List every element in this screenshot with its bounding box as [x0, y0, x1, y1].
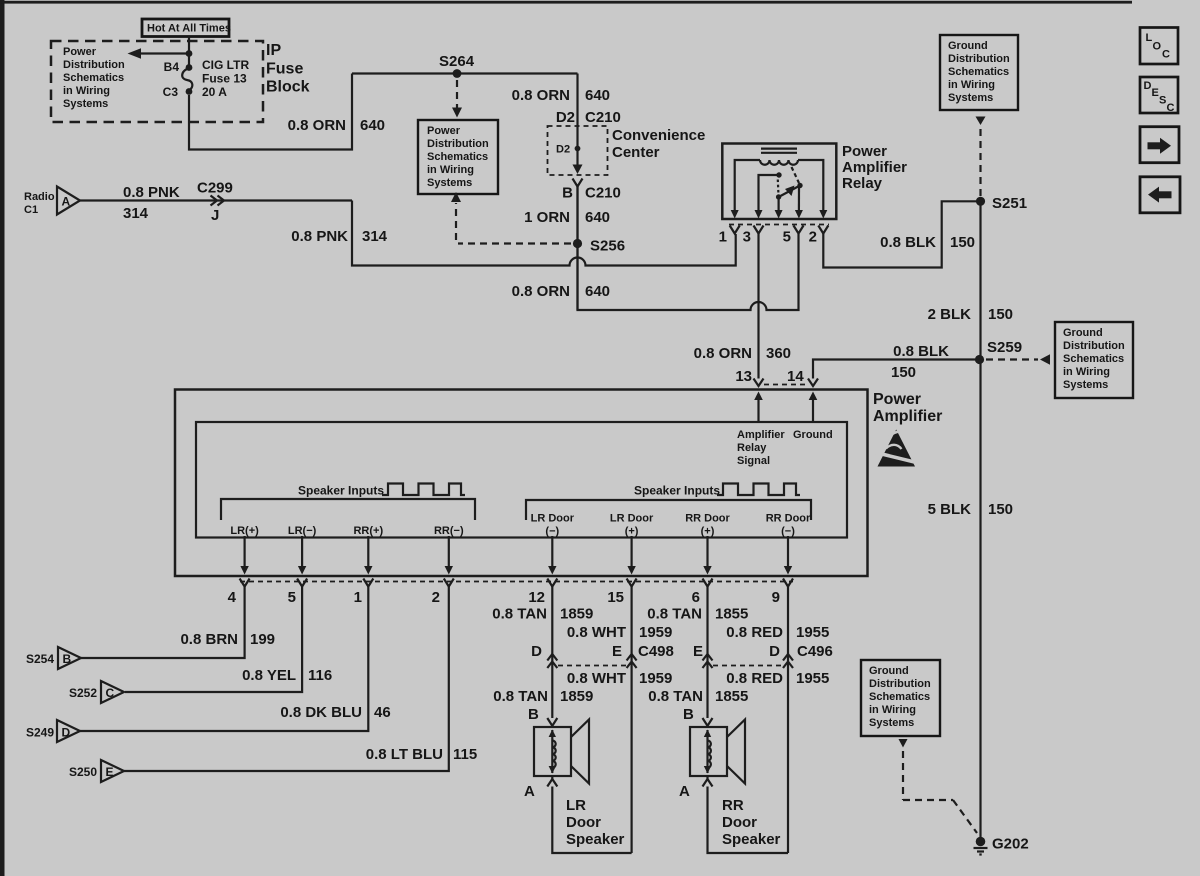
amplifier pin numbers 13 14: [735, 368, 804, 385]
svg-text:640: 640: [360, 117, 385, 134]
speaker input pin labels LR RR: [230, 525, 464, 537]
convenience center dashed box: [548, 126, 608, 175]
svg-text:G202: G202: [992, 836, 1029, 853]
labels 0.8 WHT 1959 (pin 15 upper): [567, 624, 673, 641]
svg-text:0.8 TAN: 0.8 TAN: [648, 688, 703, 705]
relay fixed contact pin3: [759, 172, 782, 211]
svg-text:J: J: [211, 207, 219, 224]
wire fuse output down and over to 0.8 ORN riser: [189, 74, 352, 150]
svg-text:115: 115: [453, 746, 477, 763]
button next (right arrow): [1140, 127, 1179, 163]
svg-text:1855: 1855: [715, 688, 748, 705]
svg-text:0.8 RED: 0.8 RED: [726, 670, 783, 687]
splice S251: [976, 195, 1027, 212]
svg-text:Relay: Relay: [842, 175, 883, 192]
svg-text:150: 150: [988, 306, 1013, 323]
label 0.8 ORN 640 below S256: [512, 283, 610, 300]
labels 0.8 RED 1955 (lower): [726, 670, 829, 687]
svg-text:LR(+): LR(+): [230, 525, 259, 537]
svg-text:0.8 TAN: 0.8 TAN: [493, 688, 548, 705]
svg-text:RR Door: RR Door: [685, 513, 730, 525]
svg-text:LR Door: LR Door: [610, 513, 654, 525]
svg-text:640: 640: [585, 87, 610, 104]
label 0.8 ORN 640: [512, 87, 610, 104]
svg-text:Ground: Ground: [948, 40, 988, 52]
svg-text:Speaker: Speaker: [722, 831, 781, 848]
splice S256: [573, 238, 625, 255]
svg-text:0.8 WHT: 0.8 WHT: [567, 670, 626, 687]
connector B C210 (female Y): [562, 179, 621, 202]
wire LR speaker A loop to wire 15: [552, 787, 631, 854]
svg-text:20 A: 20 A: [202, 85, 227, 99]
label 2 BLK 150: [928, 306, 1013, 323]
svg-text:S251: S251: [992, 195, 1027, 212]
inline connector C299 terminal J (chevrons): [197, 180, 233, 225]
svg-text:5 BLK: 5 BLK: [928, 501, 972, 518]
svg-text:A: A: [679, 783, 690, 800]
svg-text:Systems: Systems: [948, 92, 993, 104]
label 0.8 ORN 640: [288, 117, 385, 134]
svg-text:12: 12: [528, 589, 545, 606]
svg-text:0.8 LT BLU: 0.8 LT BLU: [366, 746, 443, 763]
LR door speaker: [534, 720, 589, 784]
scan page border top: [0, 1, 1132, 4]
fuse value label: [202, 58, 249, 99]
svg-text:Distribution: Distribution: [948, 53, 1010, 65]
input group bracket (right): [526, 500, 811, 520]
wire 0.8 BLK 150 relay pin2 to S251: [823, 201, 976, 267]
svg-text:1955: 1955: [796, 624, 829, 641]
svg-text:1855: 1855: [715, 606, 748, 623]
svg-text:D: D: [62, 726, 71, 740]
svg-text:RR(+): RR(+): [353, 525, 383, 537]
svg-text:0.8 BRN: 0.8 BRN: [180, 631, 238, 648]
svg-text:D2: D2: [556, 144, 570, 156]
svg-text:1959: 1959: [639, 670, 672, 687]
svg-text:0.8 TAN: 0.8 TAN: [647, 606, 702, 623]
svg-text:9: 9: [772, 589, 780, 606]
wire 12 down to LR speaker B: [551, 587, 553, 719]
relay pin terminals (female Y): [730, 226, 829, 234]
svg-text:46: 46: [374, 704, 391, 721]
svg-text:D: D: [1144, 80, 1152, 92]
svg-text:Distribution: Distribution: [63, 59, 125, 71]
relay coil core lines: [761, 149, 797, 153]
svg-text:0.8 ORN: 0.8 ORN: [512, 283, 570, 300]
svg-text:360: 360: [766, 345, 791, 362]
relay connector dashed line: [729, 224, 829, 226]
wire 1 ORN 640 to S256: [576, 187, 578, 311]
svg-text:2: 2: [809, 229, 817, 246]
svg-text:1955: 1955: [796, 670, 829, 687]
svg-text:199: 199: [250, 631, 275, 648]
power amplifier label: [873, 391, 942, 425]
svg-text:E: E: [1152, 87, 1159, 99]
labels 0.8 TAN 1855 (lower): [648, 688, 748, 705]
svg-text:Speaker Inputs: Speaker Inputs: [298, 484, 384, 498]
RR door speaker: [690, 720, 745, 784]
svg-text:Distribution: Distribution: [427, 138, 489, 150]
svg-text:150: 150: [988, 501, 1013, 518]
svg-text:B: B: [683, 706, 694, 723]
amplifier internal arrows for pins 13/14: [754, 392, 817, 423]
labels 0.8 TAN 1859 (pin 12 upper): [492, 606, 593, 623]
wire 0.8 BRN 199 pin4 to S254: [81, 587, 245, 659]
svg-text:A: A: [524, 783, 535, 800]
splice S259: [975, 339, 1022, 364]
wire 0.8 YEL 116 pin5 to S252: [125, 587, 302, 693]
svg-text:Ground: Ground: [1063, 327, 1103, 339]
svg-text:C: C: [1167, 102, 1175, 114]
svg-text:640: 640: [585, 283, 610, 300]
dashed reference arrow from ground box down to S251: [976, 117, 986, 197]
IP Fuse Block label: [266, 42, 310, 96]
amplifier bottom connector dashed line: [240, 581, 793, 583]
svg-text:(−): (−): [545, 526, 559, 538]
svg-text:Fuse: Fuse: [266, 61, 303, 78]
svg-text:Speaker: Speaker: [566, 831, 625, 848]
svg-text:RR(−): RR(−): [434, 525, 464, 537]
splice S264: [439, 53, 475, 78]
svg-text:Door: Door: [566, 814, 601, 831]
svg-text:15: 15: [607, 589, 624, 606]
svg-text:C3: C3: [163, 85, 179, 99]
svg-text:in Wiring: in Wiring: [869, 704, 916, 716]
svg-text:13: 13: [735, 368, 752, 385]
svg-text:S252: S252: [69, 686, 97, 700]
connector C498 terminals D and E: [531, 643, 674, 668]
relay box: Power Amplifier Relay: [722, 144, 836, 220]
svg-text:B: B: [528, 706, 539, 723]
svg-text:C1: C1: [24, 204, 38, 216]
svg-text:in Wiring: in Wiring: [427, 164, 474, 176]
svg-text:Power: Power: [842, 143, 887, 160]
relay pin numbers 1 3 5 2: [719, 229, 817, 246]
svg-text:640: 640: [585, 209, 610, 226]
dashed reference S259 to ground box (right): [986, 354, 1050, 364]
wire 0.8 ORN drop from S264 run to convenience center: [576, 74, 578, 171]
svg-text:CIG LTR: CIG LTR: [202, 58, 249, 72]
relay coil: [760, 160, 798, 165]
svg-text:B: B: [63, 652, 72, 666]
RR Door Speaker caption: [722, 797, 781, 848]
radio output A: [24, 187, 80, 217]
connector D2 C210 label: [556, 109, 621, 126]
svg-text:0.8 BLK: 0.8 BLK: [880, 234, 936, 251]
svg-text:5: 5: [783, 229, 791, 246]
amplifier relay signal / ground labels: [737, 429, 833, 467]
RR speaker terminal B: [683, 706, 713, 726]
labels 0.8 TAN 1859 (lower): [493, 688, 593, 705]
svg-text:LR Door: LR Door: [531, 513, 575, 525]
svg-text:1859: 1859: [560, 688, 593, 705]
svg-text:Speaker Inputs: Speaker Inputs: [634, 484, 720, 498]
svg-text:C496: C496: [797, 643, 833, 660]
dashed reference from bottom ground box to G202: [899, 739, 978, 833]
relay actuation dotted link: [777, 180, 780, 194]
svg-text:S249: S249: [26, 726, 54, 740]
svg-text:in Wiring: in Wiring: [1063, 366, 1110, 378]
button DESC: [1140, 77, 1178, 114]
labels 0.8 WHT 1959 (lower): [567, 670, 673, 687]
svg-text:RR Door: RR Door: [766, 513, 811, 525]
wire 0.8 ORN 640 top run: [352, 72, 578, 74]
svg-text:(+): (+): [625, 526, 639, 538]
svg-text:Schematics: Schematics: [948, 66, 1009, 78]
relay armature arm: [779, 186, 800, 198]
svg-text:Convenience: Convenience: [612, 127, 705, 144]
svg-text:A: A: [62, 195, 71, 209]
svg-text:Distribution: Distribution: [869, 678, 931, 690]
relay pin arrows at box bottom: [731, 210, 828, 219]
wire 6 down to RR speaker B: [706, 587, 708, 719]
svg-text:D: D: [531, 643, 542, 660]
svg-text:Systems: Systems: [869, 717, 914, 729]
button back (left arrow): [1140, 177, 1180, 213]
IP fuse block note text: [63, 46, 125, 110]
svg-text:B4: B4: [164, 60, 180, 74]
svg-text:B: B: [562, 185, 573, 202]
svg-text:S264: S264: [439, 53, 475, 70]
svg-text:(−): (−): [781, 526, 795, 538]
svg-text:in Wiring: in Wiring: [948, 79, 995, 91]
svg-text:Fuse 13: Fuse 13: [202, 72, 247, 86]
svg-text:Signal: Signal: [737, 455, 770, 467]
label box: Hot At All Times: [142, 19, 231, 37]
LR speaker terminal B: [528, 706, 557, 726]
svg-text:14: 14: [787, 368, 804, 385]
dashed reference arrow S264 to power distribution box: [452, 80, 462, 118]
svg-text:Amplifier: Amplifier: [873, 408, 942, 425]
wire 0.8 BLK 150 S259 to amplifier pin 14: [813, 360, 976, 379]
svg-text:0.8 BLK: 0.8 BLK: [893, 343, 949, 360]
LR Door Speaker caption: [566, 797, 625, 848]
svg-text:Systems: Systems: [427, 177, 472, 189]
svg-text:0.8 WHT: 0.8 WHT: [567, 624, 626, 641]
svg-text:Block: Block: [266, 79, 310, 96]
amplifier bottom pin terminals (female Y): [240, 579, 793, 587]
scan page border left: [0, 0, 5, 876]
svg-text:Ground: Ground: [869, 665, 909, 677]
square wave symbol (right): [717, 484, 800, 496]
svg-text:Systems: Systems: [1063, 379, 1108, 391]
dashed reference S256 to power distribution box: [451, 192, 571, 244]
wire relay pin3 down to amplifier pin 13: [757, 234, 759, 379]
svg-text:E: E: [612, 643, 622, 660]
label 5 BLK 150: [928, 501, 1013, 518]
terminal S249 D: [26, 720, 80, 742]
svg-text:2: 2: [432, 589, 440, 606]
IP fuse block dashed box: [51, 41, 263, 122]
svg-text:S250: S250: [69, 765, 97, 779]
square wave symbol (left): [382, 484, 465, 496]
wire 0.8 PNK 314 down and across to relay pin 1 (hops over ORN): [352, 201, 736, 266]
terminal S250 E: [69, 760, 124, 782]
svg-text:Schematics: Schematics: [869, 691, 930, 703]
svg-text:1 ORN: 1 ORN: [524, 209, 570, 226]
svg-text:1859: 1859: [560, 606, 593, 623]
svg-text:1: 1: [719, 229, 727, 246]
svg-text:4: 4: [228, 589, 237, 606]
svg-text:150: 150: [891, 364, 916, 381]
fuse F13 (CIG LTR Fuse 13 20A): [182, 64, 192, 95]
svg-text:S: S: [1159, 95, 1166, 107]
door speaker pin labels: [531, 513, 811, 538]
svg-text:Systems: Systems: [63, 98, 108, 110]
Convenience Center label: [612, 127, 705, 161]
svg-text:2 BLK: 2 BLK: [928, 306, 972, 323]
amplifier pins 13/14 female Y terminals and connector dashes: [754, 379, 819, 387]
wire 9 down to RR speaker loop: [787, 587, 789, 854]
relay coil leg pin2: [798, 160, 823, 211]
svg-text:Power: Power: [427, 125, 461, 137]
wire from Hot At All Times down to fuse: [188, 36, 190, 66]
svg-text:D2: D2: [556, 109, 575, 126]
LR speaker terminal A: [524, 776, 557, 800]
svg-text:6: 6: [692, 589, 700, 606]
svg-text:Amplifier: Amplifier: [842, 159, 907, 176]
svg-text:O: O: [1153, 41, 1162, 53]
svg-text:C: C: [106, 686, 115, 700]
svg-text:1: 1: [354, 589, 362, 606]
ESD sensitive device symbol: [876, 430, 917, 467]
reference box: Ground Distribution Schematics (middle right): [1055, 322, 1133, 398]
svg-text:RR: RR: [722, 797, 744, 814]
wire RR speaker A loop to wire 9: [708, 787, 789, 854]
ground G202: [974, 836, 1029, 855]
svg-text:0.8 PNK: 0.8 PNK: [291, 228, 348, 245]
svg-text:S256: S256: [590, 238, 625, 255]
svg-text:3: 3: [743, 229, 751, 246]
RR speaker terminal A: [679, 776, 713, 800]
wire arrow to power distribution: [128, 48, 190, 58]
svg-text:Radio: Radio: [24, 191, 55, 203]
wire 0.8 DK BLU 46 pin1 to S249: [80, 587, 368, 732]
svg-text:116: 116: [308, 667, 332, 684]
input group bracket (left): [221, 499, 475, 520]
wire 0.8 ORN continues below S256 to relay pin 5 (hops over pin3 wire): [578, 187, 799, 311]
svg-text:IP: IP: [266, 42, 281, 59]
button LOC: [1140, 28, 1178, 65]
svg-text:C210: C210: [585, 109, 621, 126]
terminal S254 B: [26, 647, 81, 669]
svg-text:S254: S254: [26, 652, 54, 666]
reference box: Power Distribution Schematics in Wiring Systems: [418, 120, 498, 194]
svg-text:Door: Door: [722, 814, 757, 831]
amplifier output wires inside box: [240, 536, 792, 575]
svg-text:150: 150: [950, 234, 975, 251]
svg-text:0.8 YEL: 0.8 YEL: [242, 667, 296, 684]
svg-text:C210: C210: [585, 185, 621, 202]
svg-text:C299: C299: [197, 180, 233, 197]
main ground wire down right side: [979, 201, 981, 837]
svg-text:0.8 ORN: 0.8 ORN: [288, 117, 346, 134]
svg-text:S259: S259: [987, 339, 1022, 356]
svg-text:Schematics: Schematics: [427, 151, 488, 163]
wire 0.8 PNK 314 from radio: [80, 199, 352, 201]
svg-text:E: E: [106, 765, 114, 779]
svg-text:Schematics: Schematics: [1063, 353, 1124, 365]
svg-text:0.8 DK BLU: 0.8 DK BLU: [280, 704, 362, 721]
wire 15 down to LR speaker loop: [630, 587, 632, 854]
svg-text:Relay: Relay: [737, 442, 767, 454]
svg-text:Center: Center: [612, 144, 660, 161]
relay dashed contact path: [792, 167, 800, 183]
connector C496 terminals E and D: [693, 643, 833, 668]
svg-text:0.8 TAN: 0.8 TAN: [492, 606, 547, 623]
wire 0.8 LT BLU 115 pin2 to S250: [124, 587, 449, 772]
power amplifier outer box: [175, 390, 868, 577]
svg-text:LR: LR: [566, 797, 586, 814]
svg-text:314: 314: [362, 228, 388, 245]
labels 0.8 TAN 1855 (pin 6 upper): [647, 606, 748, 623]
svg-text:E: E: [693, 643, 703, 660]
svg-text:L: L: [1146, 32, 1153, 44]
svg-text:D: D: [769, 643, 780, 660]
label 0.8 ORN 360 at amplifier pin 13: [694, 345, 791, 362]
svg-text:Power: Power: [63, 46, 97, 58]
svg-text:C: C: [1162, 49, 1170, 61]
power amplifier inner box: [196, 422, 847, 538]
labels 0.8 RED 1955 (pin 9 upper): [726, 624, 829, 641]
svg-text:0.8 ORN: 0.8 ORN: [512, 87, 570, 104]
svg-text:0.8 ORN: 0.8 ORN: [694, 345, 752, 362]
relay armature pivot pin: [776, 194, 781, 211]
reference box: Ground Distribution Schematics (top right): [940, 35, 1018, 110]
svg-text:Ground: Ground: [793, 429, 833, 441]
svg-text:C498: C498: [638, 643, 674, 660]
svg-text:Schematics: Schematics: [63, 72, 124, 84]
node at arrow junction: [186, 50, 193, 57]
svg-text:314: 314: [123, 205, 149, 222]
relay coil leg pin1: [735, 160, 760, 211]
svg-text:Distribution: Distribution: [1063, 340, 1125, 352]
svg-text:Power: Power: [873, 391, 921, 408]
svg-text:in Wiring: in Wiring: [63, 85, 110, 97]
svg-text:0.8 RED: 0.8 RED: [726, 624, 783, 641]
svg-text:(+): (+): [701, 526, 715, 538]
svg-text:LR(−): LR(−): [288, 525, 317, 537]
svg-text:1959: 1959: [639, 624, 672, 641]
svg-text:0.8 PNK: 0.8 PNK: [123, 184, 180, 201]
svg-text:Amplifier: Amplifier: [737, 429, 785, 441]
amplifier pin numbers 4 5 1 2 12 15 6 9: [228, 589, 780, 606]
relay moving contact end: [797, 183, 802, 211]
svg-text:Hot At All Times: Hot At All Times: [147, 23, 231, 35]
terminal S252 C: [69, 681, 124, 703]
reference box: Ground Distribution Schematics (bottom): [861, 660, 940, 736]
svg-text:5: 5: [288, 589, 296, 606]
